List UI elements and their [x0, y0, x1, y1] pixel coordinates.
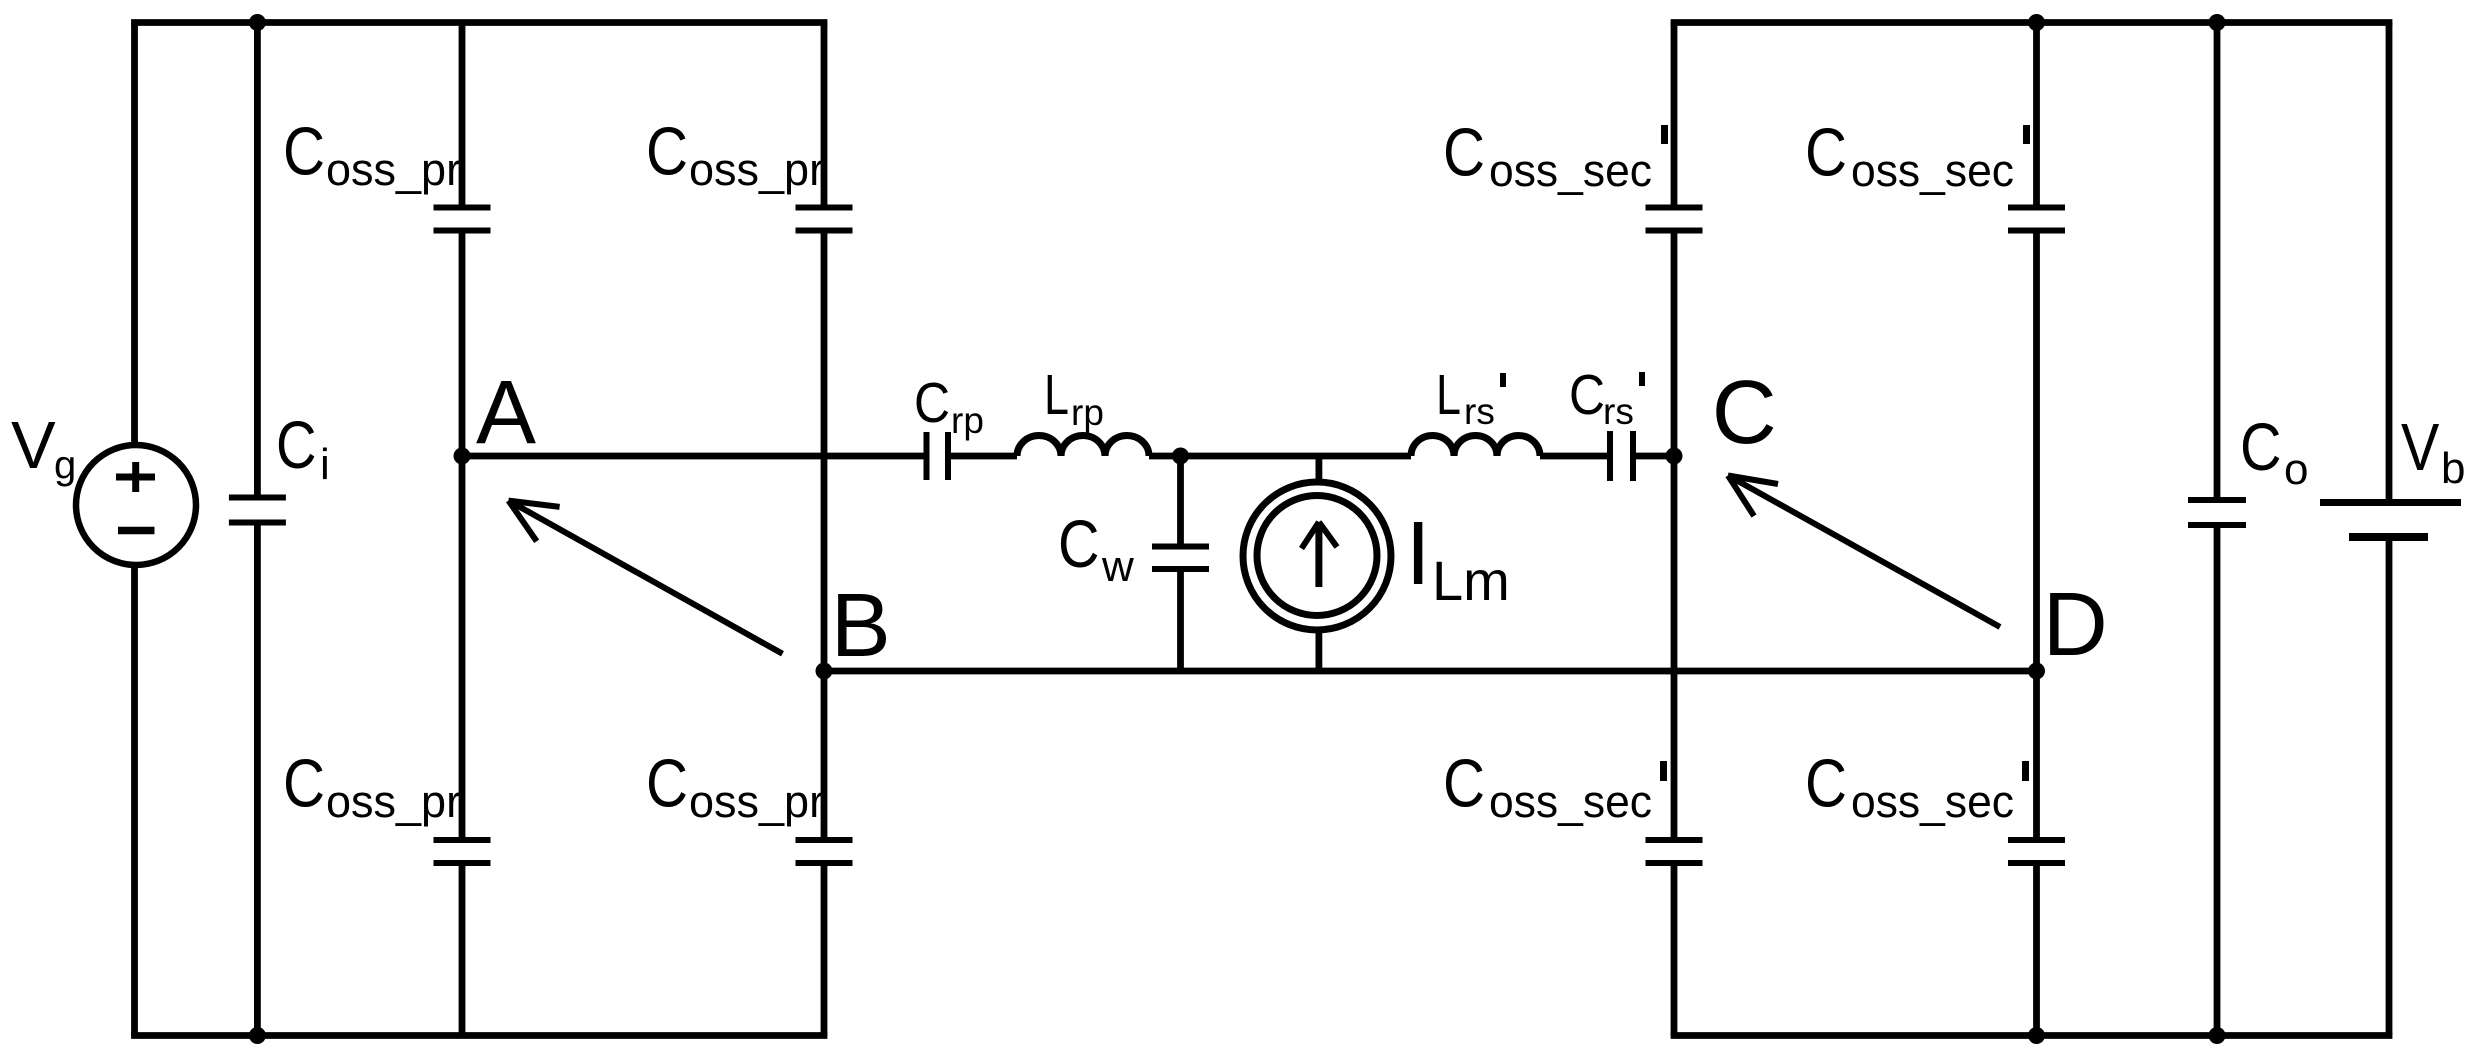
svg-text:oss_pr: oss_pr: [326, 144, 461, 195]
svg-text:C: C: [1443, 115, 1485, 191]
svg-text:oss_sec: oss_sec: [1489, 145, 1652, 196]
svg-text:oss_sec: oss_sec: [1851, 145, 2014, 196]
svg-text:rs: rs: [1464, 391, 1495, 432]
svg-text:A: A: [476, 363, 536, 463]
svg-text:g: g: [54, 443, 76, 487]
svg-text:C: C: [646, 114, 688, 190]
svg-text:V: V: [11, 408, 56, 483]
svg-text:C: C: [1805, 115, 1847, 191]
svg-text:C: C: [276, 408, 317, 483]
svg-text:i: i: [320, 440, 330, 489]
svg-text:C: C: [1058, 507, 1100, 582]
svg-text:C: C: [914, 371, 950, 435]
svg-text:oss_sec: oss_sec: [1489, 776, 1652, 827]
svg-text:B: B: [831, 576, 891, 676]
svg-text:oss_pr: oss_pr: [689, 776, 824, 827]
svg-text:C: C: [646, 746, 688, 822]
svg-text:C: C: [2240, 410, 2282, 485]
svg-text:D: D: [2043, 575, 2108, 675]
svg-text:C: C: [1805, 746, 1847, 822]
svg-text:C: C: [1712, 363, 1777, 463]
svg-text:I: I: [1406, 504, 1431, 604]
svg-text:o: o: [2284, 445, 2308, 494]
svg-text:rp: rp: [1071, 392, 1104, 433]
svg-text:rs: rs: [1603, 391, 1634, 432]
svg-text:oss_pr: oss_pr: [326, 776, 461, 827]
svg-text:oss_pr: oss_pr: [689, 144, 824, 195]
svg-text:L: L: [1436, 363, 1461, 427]
svg-text:L: L: [1044, 363, 1069, 427]
svg-text:Lm: Lm: [1432, 549, 1510, 612]
svg-text:C: C: [283, 114, 325, 190]
svg-text:b: b: [2441, 444, 2465, 493]
svg-text:oss_sec: oss_sec: [1851, 776, 2014, 827]
svg-text:w: w: [1101, 542, 1134, 591]
svg-text:C: C: [1443, 746, 1485, 822]
svg-text:V: V: [2401, 410, 2440, 485]
svg-text:C: C: [283, 746, 325, 822]
svg-text:rp: rp: [951, 400, 984, 441]
svg-text:C: C: [1569, 363, 1605, 427]
